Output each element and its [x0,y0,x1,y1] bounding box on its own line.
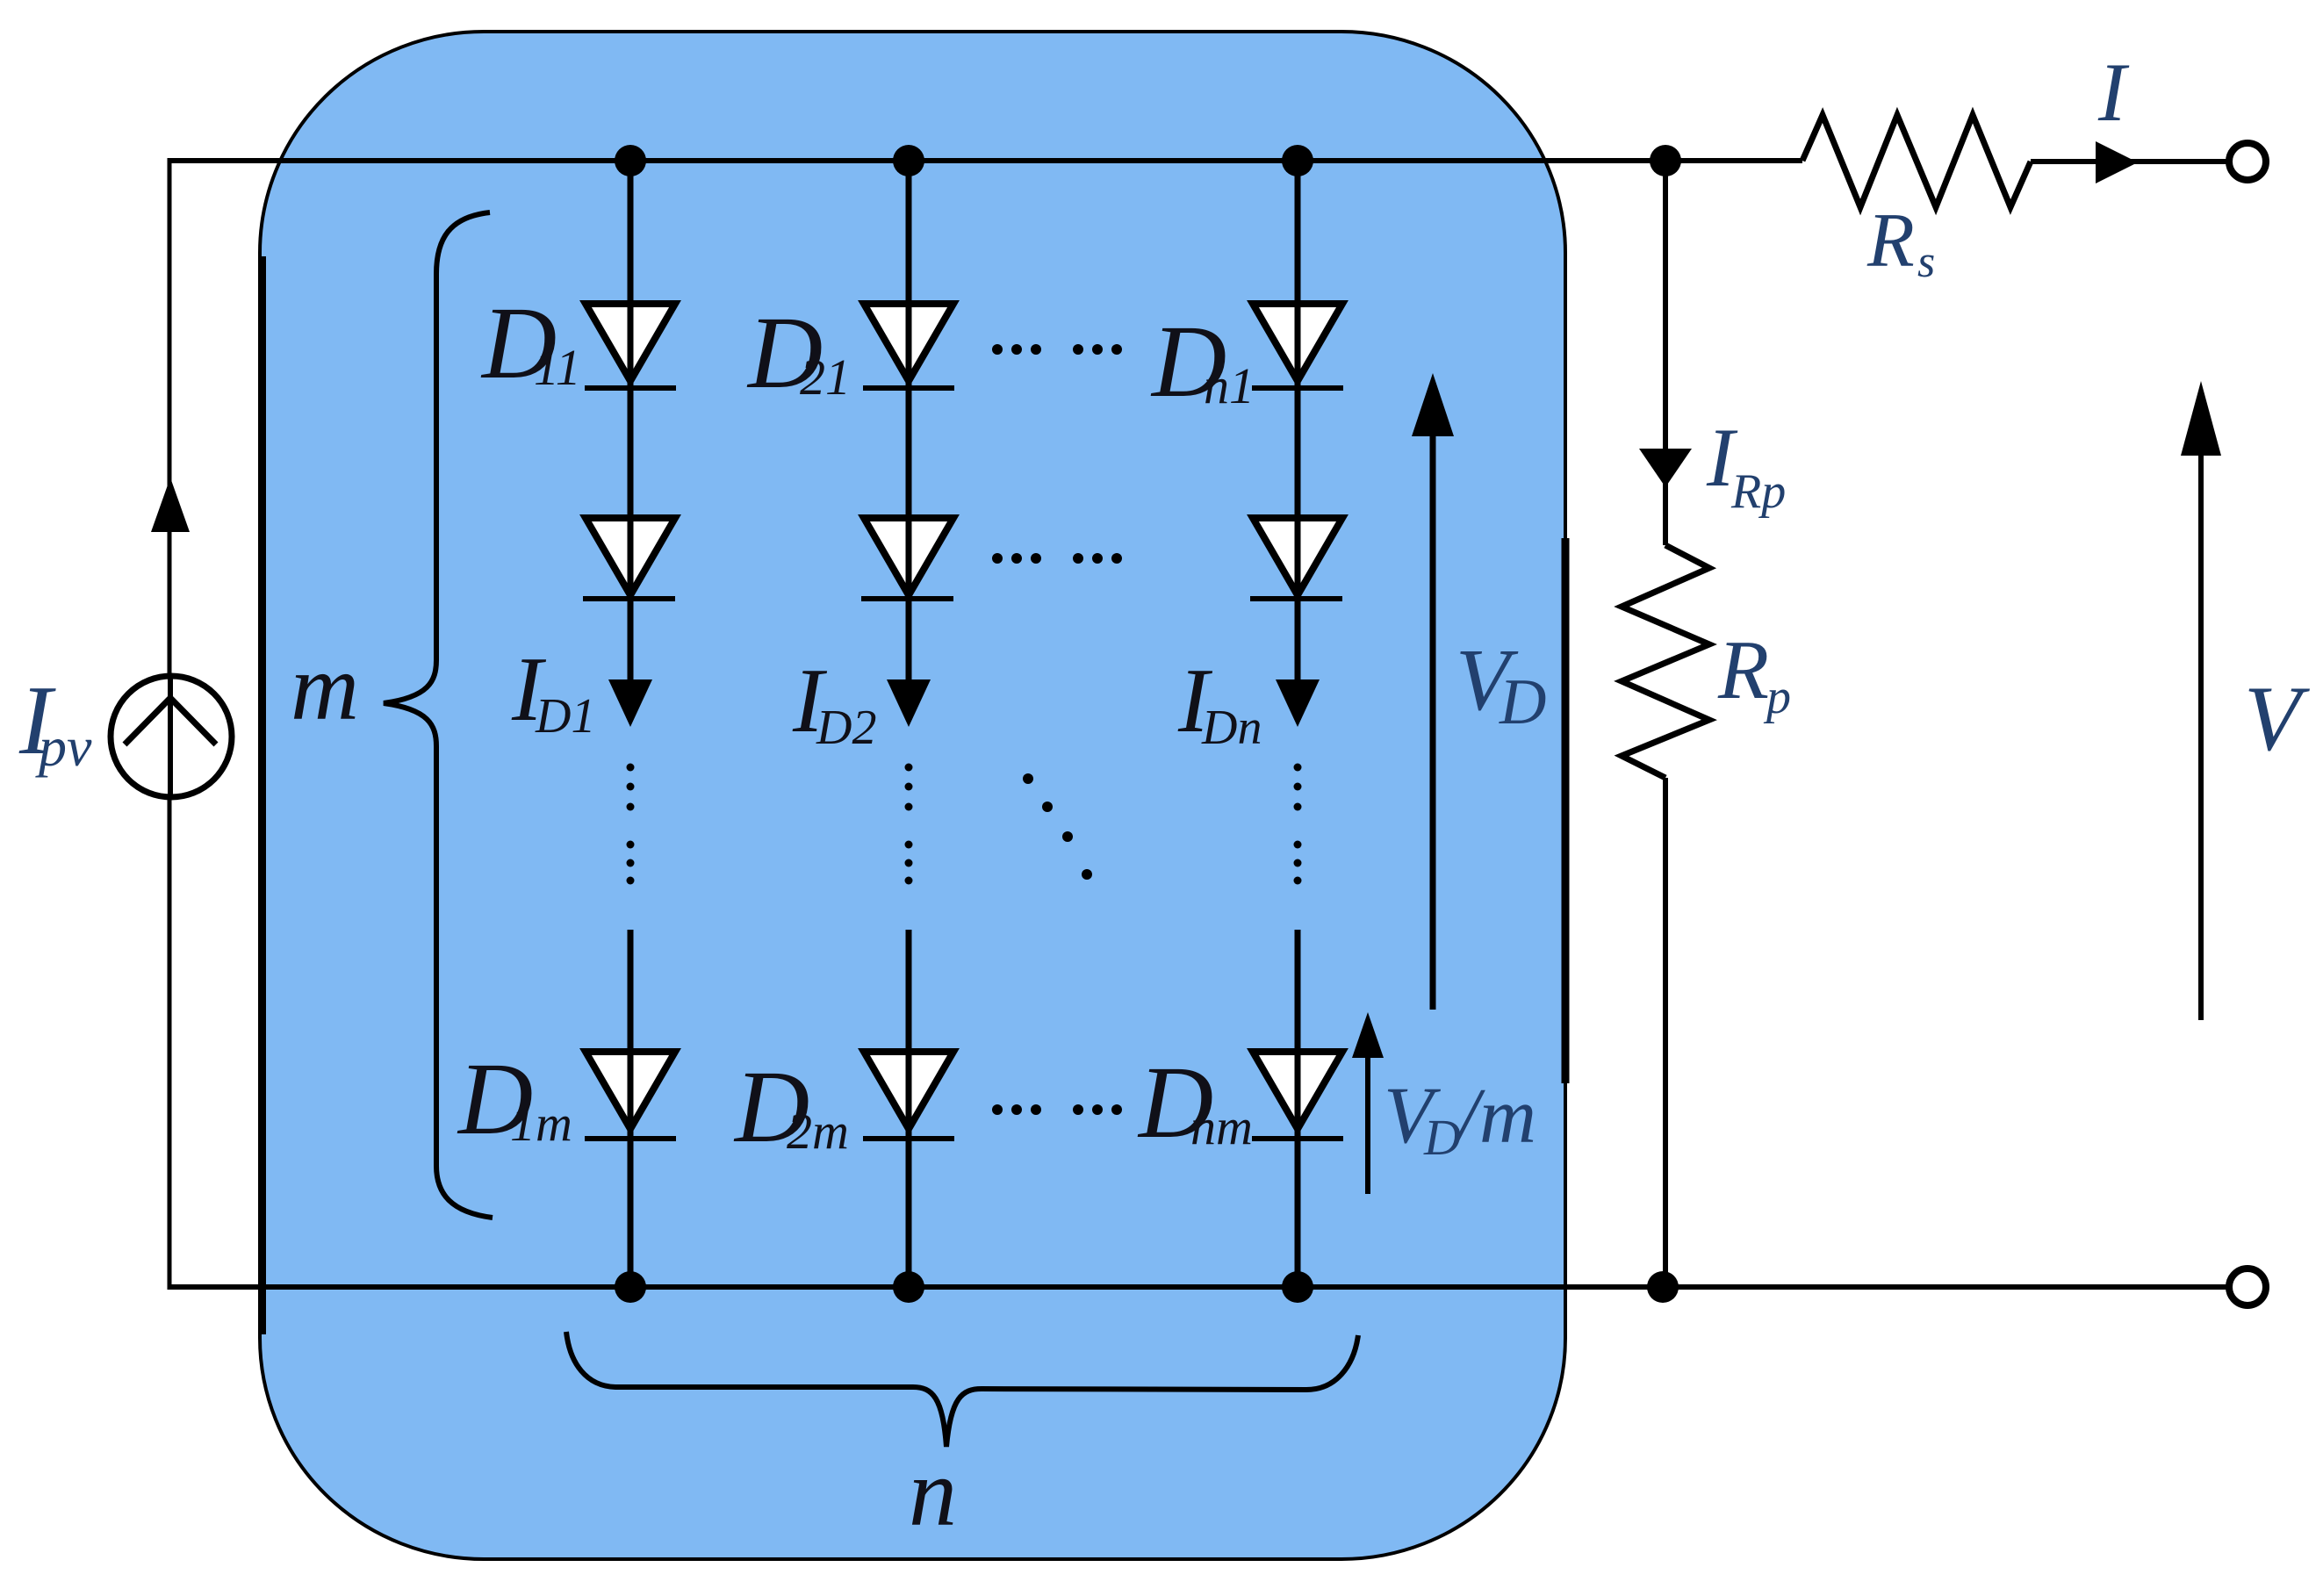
svg-text:Rp: Rp [1730,464,1786,519]
svg-text:I: I [2097,46,2130,139]
svg-text:D: D [1499,666,1546,738]
svg-text:V: V [2244,667,2310,770]
svg-text:D2: D2 [816,701,876,755]
svg-text:R: R [1866,198,1915,284]
svg-text:R: R [1717,623,1769,716]
svg-text:n: n [909,1439,957,1546]
svg-text:1m: 1m [510,1095,572,1152]
svg-text:n1: n1 [1204,357,1255,414]
svg-text:p: p [1763,670,1791,724]
svg-text:m: m [291,636,359,740]
svg-text:/m: /m [1453,1073,1536,1160]
svg-text:pv: pv [35,715,92,778]
svg-text:D: D [1423,1109,1461,1166]
svg-text:s: s [1917,237,1935,287]
svg-text:nm: nm [1190,1098,1253,1155]
svg-text:11: 11 [534,339,581,396]
svg-text:2m: 2m [787,1103,849,1160]
svg-text:D1: D1 [535,689,595,744]
svg-text:21: 21 [800,349,851,406]
svg-text:Dn: Dn [1201,701,1262,755]
